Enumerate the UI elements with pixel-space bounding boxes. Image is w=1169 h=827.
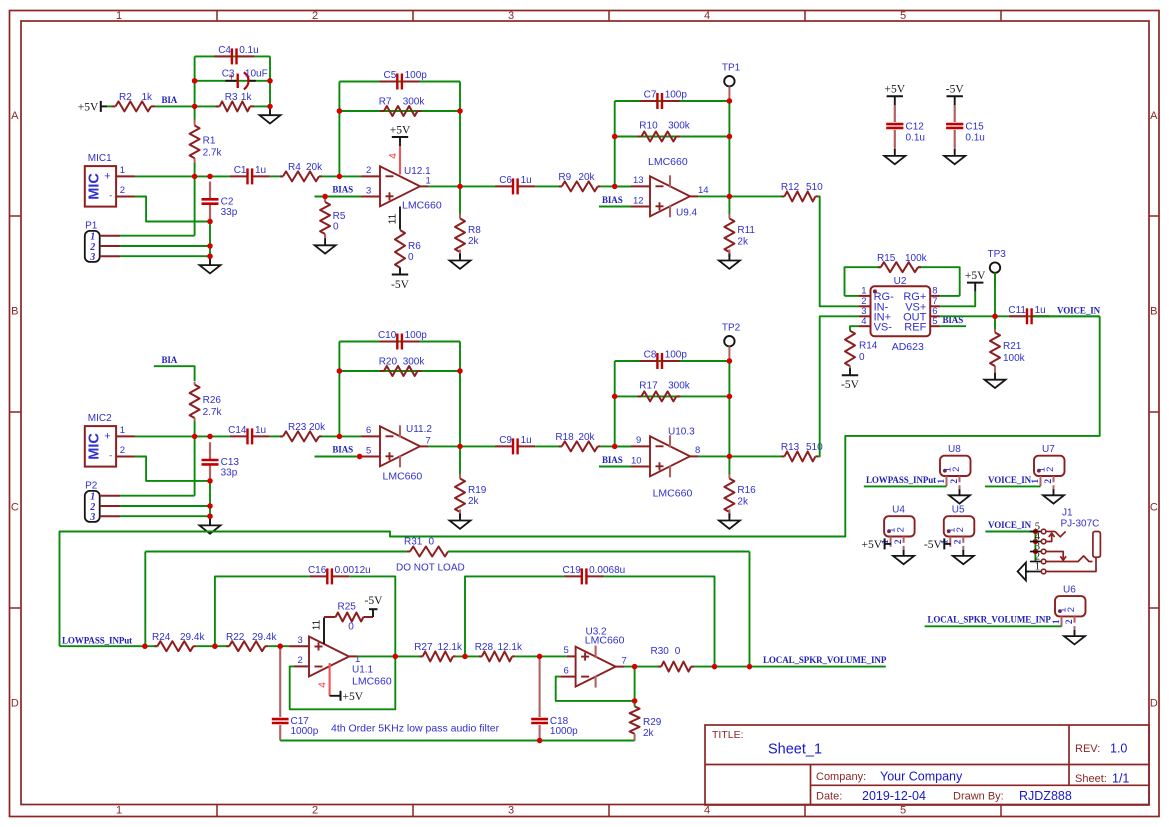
svg-text:R25: R25 bbox=[338, 602, 357, 613]
wire R24 to C16 node bbox=[196, 645, 229, 647]
wire R28 to U3.2 pin5 bbox=[515, 655, 576, 657]
svg-text:U4: U4 bbox=[892, 505, 905, 516]
U2 left pin names bbox=[874, 291, 895, 333]
svg-text:R1: R1 bbox=[203, 136, 216, 147]
ground (C12) bbox=[884, 145, 905, 164]
power flag -5V (R25) bbox=[365, 595, 384, 617]
wire +5V to R2 bbox=[107, 105, 111, 107]
svg-text:2: 2 bbox=[1045, 467, 1056, 472]
net label BIA bbox=[162, 95, 178, 105]
test point TP3 bbox=[988, 249, 1007, 317]
svg-text:1: 1 bbox=[1031, 479, 1041, 484]
svg-text:2k: 2k bbox=[468, 236, 480, 247]
header U5 bbox=[941, 505, 975, 547]
svg-text:C16: C16 bbox=[308, 565, 327, 576]
wire out to R12 bbox=[729, 195, 784, 197]
svg-text:A: A bbox=[1150, 110, 1158, 122]
svg-text:300k: 300k bbox=[668, 381, 691, 392]
wire out to R13 bbox=[729, 455, 784, 457]
wire BIAS stub to pin3 bbox=[315, 196, 381, 198]
svg-text:1k: 1k bbox=[142, 92, 154, 103]
svg-text:1u: 1u bbox=[255, 425, 266, 436]
wire R9 to U9.4 pin13 node bbox=[601, 185, 631, 187]
svg-text:TP2: TP2 bbox=[722, 322, 741, 333]
wire MIC1 pin2 route bbox=[135, 197, 211, 222]
svg-text:R26: R26 bbox=[203, 395, 222, 406]
svg-text:C15: C15 bbox=[965, 121, 984, 132]
capacitor C7 100p bbox=[640, 90, 688, 109]
net label VOICE_IN (J1) bbox=[985, 520, 1035, 531]
wire LOWPASS input row bbox=[60, 645, 158, 647]
svg-text:2k: 2k bbox=[737, 237, 749, 248]
svg-text:A: A bbox=[11, 110, 19, 122]
wire R16 top lead bbox=[728, 456, 730, 474]
net label LOCAL_SPKR_VOLUME_INP (U6) bbox=[925, 615, 1062, 627]
svg-text:4: 4 bbox=[388, 153, 399, 159]
svg-text:0: 0 bbox=[675, 646, 681, 657]
ground (R19) bbox=[450, 510, 471, 529]
svg-text:R10: R10 bbox=[639, 121, 658, 132]
capacitor C10 100p bbox=[378, 330, 427, 349]
power flag -5V (U12.1) bbox=[391, 268, 410, 291]
junction MIC1 pin1 bbox=[192, 174, 213, 179]
test point TP2 bbox=[722, 322, 741, 360]
wire left vertical C7-R10-pin13 bbox=[614, 101, 616, 186]
capacitor C14 1u bbox=[228, 425, 270, 445]
junction J1 pins bbox=[1033, 529, 1038, 554]
svg-text:2k: 2k bbox=[468, 496, 480, 507]
J1 pin numbers bbox=[1035, 521, 1041, 572]
svg-text:+5V: +5V bbox=[885, 84, 906, 96]
svg-text:11: 11 bbox=[388, 213, 399, 224]
svg-text:4: 4 bbox=[318, 682, 329, 688]
resistor R21 100k bbox=[990, 329, 1026, 371]
resistor R30 0 bbox=[651, 646, 695, 672]
wire P2 pin2 bbox=[120, 505, 210, 507]
svg-text:C12: C12 bbox=[906, 121, 925, 132]
svg-text:2.7k: 2.7k bbox=[203, 148, 223, 159]
jack J1 labels bbox=[1061, 508, 1100, 530]
connector P1 bbox=[85, 220, 120, 263]
svg-text:0: 0 bbox=[859, 352, 865, 363]
svg-text:C: C bbox=[11, 502, 19, 514]
power flag +5V (U12.1) bbox=[390, 124, 411, 146]
junction U9.4 columns bbox=[612, 98, 732, 199]
power pin 11 (U1.1) bbox=[312, 618, 325, 645]
pin number 2 (U12.1) bbox=[366, 165, 371, 176]
capacitor C6 1u bbox=[495, 175, 535, 195]
header U7 bbox=[1031, 444, 1065, 486]
microphone MIC2 bbox=[85, 413, 135, 467]
U2 pin lines right bbox=[930, 296, 940, 326]
svg-text:VOICE_IN: VOICE_IN bbox=[988, 520, 1032, 530]
capacitor C16 0.0012u bbox=[308, 565, 371, 584]
svg-text:1: 1 bbox=[1035, 561, 1040, 572]
capacitor C4 0.1u bbox=[214, 45, 258, 64]
pin number 6 (U11.2) bbox=[366, 425, 371, 436]
ground (U8) bbox=[949, 485, 970, 503]
svg-text:Date:: Date: bbox=[816, 791, 842, 803]
svg-text:0.1u: 0.1u bbox=[965, 133, 984, 144]
junction C5/R7 columns bbox=[337, 108, 463, 189]
wire R27 to R28 bbox=[456, 655, 482, 657]
pin number 6 (U3.2) bbox=[564, 665, 569, 676]
resistor R13 510 bbox=[781, 442, 823, 461]
wire U3.2 output bbox=[616, 666, 662, 668]
svg-text:+5V: +5V bbox=[862, 539, 883, 551]
svg-text:-5V: -5V bbox=[946, 84, 965, 96]
wire C16 loop bbox=[215, 576, 395, 652]
svg-text:300k: 300k bbox=[403, 357, 426, 368]
wire out to C6 bbox=[460, 185, 496, 187]
resistor R2 1k bbox=[112, 92, 156, 111]
svg-text:2: 2 bbox=[894, 539, 904, 544]
wire BIA stub stage2 bbox=[154, 366, 195, 381]
pin number 9 (U10.3) bbox=[636, 435, 641, 446]
resistor R28 12.1k bbox=[475, 642, 523, 661]
wire C9 to R18 bbox=[535, 445, 562, 447]
wire R10 row bbox=[615, 136, 730, 138]
capacitor C13 33p bbox=[202, 442, 240, 482]
svg-text:LMC660: LMC660 bbox=[402, 200, 442, 212]
svg-text:LMC660: LMC660 bbox=[585, 635, 625, 647]
svg-text:BIA: BIA bbox=[162, 95, 178, 105]
wire right vertical C5-R7-out bbox=[459, 82, 461, 187]
svg-text:+: + bbox=[104, 171, 110, 183]
svg-text:D: D bbox=[1150, 698, 1158, 710]
svg-text:2: 2 bbox=[951, 467, 962, 472]
svg-text:LOWPASS_INPut: LOWPASS_INPut bbox=[62, 635, 132, 645]
svg-text:2: 2 bbox=[1065, 619, 1075, 624]
svg-text:C9: C9 bbox=[499, 435, 512, 446]
svg-text:-5V: -5V bbox=[841, 379, 860, 391]
ground (C15) bbox=[944, 145, 965, 164]
svg-text:C14: C14 bbox=[228, 425, 247, 436]
op-amp U3.2 bbox=[576, 626, 627, 687]
microphone MIC1 bbox=[85, 153, 135, 207]
svg-text:20k: 20k bbox=[578, 172, 595, 183]
J1 ring contact bbox=[1046, 556, 1093, 562]
wire C6 to R9 bbox=[535, 185, 562, 187]
svg-text:4th Order 5KHz low pass audio: 4th Order 5KHz low pass audio filter bbox=[331, 723, 500, 735]
svg-text:C11: C11 bbox=[1008, 305, 1026, 316]
wire C14 to R23 bbox=[270, 435, 283, 437]
svg-text:LMC660: LMC660 bbox=[383, 471, 423, 483]
resistor R10 300k bbox=[637, 121, 690, 142]
ground (R5) bbox=[315, 234, 336, 253]
svg-text:R13: R13 bbox=[781, 442, 800, 453]
capacitor C12 0.1u bbox=[886, 105, 925, 147]
resistor R18 20k bbox=[555, 432, 600, 451]
svg-text:MIC1: MIC1 bbox=[88, 153, 112, 164]
svg-text:2: 2 bbox=[120, 185, 125, 196]
svg-text:C17: C17 bbox=[291, 716, 310, 727]
svg-text:VOICE_IN: VOICE_IN bbox=[988, 475, 1032, 485]
svg-text:2: 2 bbox=[955, 527, 966, 532]
wire U3.2 pin6 feedback bbox=[556, 667, 635, 701]
pin number 10 (U10.3) bbox=[631, 455, 642, 466]
svg-text:4: 4 bbox=[861, 316, 866, 327]
svg-text:9: 9 bbox=[636, 435, 641, 446]
wire C10 top row bbox=[339, 341, 460, 343]
svg-text:AD623: AD623 bbox=[892, 341, 924, 353]
svg-text:LOWPASS_INPut: LOWPASS_INPut bbox=[866, 475, 936, 485]
svg-text:7: 7 bbox=[622, 656, 627, 667]
wire BIAS stub to pin12 bbox=[599, 206, 650, 208]
wire R19 top lead bbox=[459, 446, 461, 474]
wire C13 down to P2 rows bbox=[209, 481, 211, 516]
svg-text:33p: 33p bbox=[221, 468, 238, 479]
svg-text:R19: R19 bbox=[468, 485, 487, 496]
ground (R16) bbox=[719, 510, 740, 529]
svg-text:0.1u: 0.1u bbox=[239, 45, 258, 56]
svg-text:7: 7 bbox=[426, 435, 431, 446]
junction U1.1 out bbox=[393, 654, 398, 659]
junction P2 pins bbox=[207, 503, 212, 519]
junction C16 left bbox=[212, 644, 217, 649]
resistor R23 20k bbox=[280, 422, 326, 441]
U2 right pin numbers bbox=[932, 286, 937, 327]
junction R29 top bbox=[632, 698, 637, 703]
resistor R12 510 bbox=[781, 182, 823, 201]
label LMC660 (U9.4) bbox=[648, 156, 688, 168]
wire R31 row bbox=[145, 552, 749, 667]
wire C19 loop bbox=[465, 576, 715, 666]
wire R15 to pin1 bbox=[845, 295, 860, 297]
svg-text:2: 2 bbox=[120, 445, 125, 456]
U2 pin lines left bbox=[859, 296, 871, 326]
svg-text:1: 1 bbox=[120, 425, 125, 436]
svg-text:5: 5 bbox=[564, 645, 569, 656]
svg-text:6: 6 bbox=[366, 425, 371, 436]
capacitor C2 33p bbox=[202, 182, 238, 222]
wire right vertical C10-R20-out bbox=[459, 342, 461, 447]
svg-text:1000p: 1000p bbox=[291, 726, 319, 737]
svg-text:Sheet_1: Sheet_1 bbox=[768, 742, 822, 758]
J1 ring switch arrow bbox=[1046, 552, 1066, 561]
power flag -5V (C15) bbox=[946, 84, 965, 106]
J1 tip switch arrow bbox=[1046, 533, 1055, 541]
svg-text:P2: P2 bbox=[85, 480, 98, 491]
svg-text:R28: R28 bbox=[475, 642, 494, 653]
pin number 3 (U1.1) bbox=[298, 635, 303, 646]
svg-text:R15: R15 bbox=[877, 253, 896, 264]
wire left vertical C8-R17-pin9 bbox=[614, 361, 616, 446]
wire U1.1 output bbox=[349, 655, 423, 657]
wire MIC2 pin2 route bbox=[135, 457, 211, 481]
svg-text:Drawn By:: Drawn By: bbox=[953, 791, 1004, 803]
svg-text:2019-12-04: 2019-12-04 bbox=[862, 789, 926, 803]
capacitor C17 1000p bbox=[272, 646, 319, 740]
junction P1 pins bbox=[207, 243, 212, 259]
svg-text:C4: C4 bbox=[218, 45, 231, 56]
header U4 bbox=[881, 505, 915, 547]
wire R4 to U12.1 pin2 node bbox=[322, 175, 339, 177]
svg-text:510: 510 bbox=[806, 182, 823, 193]
svg-text:1.0: 1.0 bbox=[1110, 742, 1127, 756]
junction C19 right bbox=[712, 664, 717, 669]
svg-text:J1: J1 bbox=[1062, 508, 1073, 519]
svg-text:BIAS: BIAS bbox=[602, 195, 623, 205]
svg-text:2: 2 bbox=[366, 165, 371, 176]
wire C5 top row bbox=[339, 81, 460, 83]
svg-text:300k: 300k bbox=[403, 97, 426, 108]
power flag +5V (U1.1) bbox=[330, 691, 364, 703]
svg-text:2k: 2k bbox=[737, 497, 749, 508]
svg-text:R9: R9 bbox=[558, 172, 571, 183]
wire pin13 to U9.4 bbox=[615, 185, 650, 187]
pin number 12 (U9.4) bbox=[633, 195, 644, 206]
svg-text:100p: 100p bbox=[665, 90, 688, 101]
wire MIC1 pin1 row bbox=[135, 175, 230, 177]
svg-text:C10: C10 bbox=[378, 330, 397, 341]
ground (P2/C13) bbox=[200, 514, 221, 533]
wire left vertical C4-C3-BIA bbox=[194, 56, 196, 106]
svg-text:TITLE:: TITLE: bbox=[712, 729, 744, 741]
label 4th order filter bbox=[331, 723, 500, 735]
resistor R3 1k bbox=[195, 92, 270, 111]
pin number 5 (U3.2) bbox=[564, 645, 569, 656]
svg-text:R4: R4 bbox=[288, 162, 301, 173]
header U6 bbox=[1052, 585, 1086, 627]
net label BIAS (U10.3) bbox=[602, 455, 623, 465]
svg-text:12.1k: 12.1k bbox=[498, 642, 523, 653]
net label LOWPASS_INPut (U8) bbox=[864, 475, 947, 486]
wire BIA down to R1 bbox=[194, 106, 196, 122]
U2 right pin names bbox=[903, 291, 927, 333]
U2 left pin numbers bbox=[861, 286, 866, 327]
junction R31 right bbox=[747, 664, 752, 669]
wire C8 row bbox=[615, 360, 730, 362]
junction C13 bbox=[207, 478, 212, 483]
svg-text:LMC660: LMC660 bbox=[352, 676, 392, 688]
capacitor C19 0.0068u bbox=[562, 565, 625, 584]
J1 pin lines bbox=[1030, 532, 1042, 572]
svg-text:R2: R2 bbox=[119, 92, 132, 103]
junction U3.2 out bbox=[632, 664, 637, 669]
ground (J1 pin1) bbox=[1018, 563, 1030, 581]
ground (R11) bbox=[719, 250, 740, 269]
wire R18 to U10.3 pin9 node bbox=[601, 445, 631, 447]
wire R17 row bbox=[615, 395, 730, 397]
svg-text:R22: R22 bbox=[226, 632, 245, 643]
title block bbox=[705, 725, 1149, 805]
wire MIC common vertical bbox=[194, 176, 196, 235]
J1 pin circles bbox=[1041, 529, 1046, 574]
svg-text:6: 6 bbox=[564, 665, 569, 676]
resistor R14 0 bbox=[845, 326, 878, 371]
op-amp U11.2 bbox=[380, 424, 432, 483]
IC U2 AD623 body bbox=[871, 276, 931, 353]
junction R5 bbox=[322, 194, 327, 199]
svg-text:R3: R3 bbox=[225, 92, 238, 103]
wire C7 row bbox=[615, 100, 730, 102]
svg-text:TP3: TP3 bbox=[988, 249, 1007, 260]
svg-text:100p: 100p bbox=[405, 70, 428, 81]
svg-text:100k: 100k bbox=[905, 253, 928, 264]
wire U2 OUT row bbox=[940, 315, 1099, 317]
svg-text:R5: R5 bbox=[333, 211, 346, 222]
wire R7 row bbox=[339, 110, 460, 112]
svg-text:3: 3 bbox=[366, 185, 371, 196]
svg-text:8: 8 bbox=[695, 445, 700, 456]
wire left vertical C5-R7-pin2 bbox=[338, 82, 340, 177]
op-amp U9.4 bbox=[650, 175, 709, 218]
svg-text:R30: R30 bbox=[651, 646, 670, 657]
svg-text:+5V: +5V bbox=[343, 691, 364, 703]
resistor R27 12.1k bbox=[414, 642, 463, 661]
resistor R24 29.4k bbox=[152, 632, 205, 651]
J1 tip contact bbox=[1046, 532, 1066, 537]
wire out to C9 bbox=[460, 445, 496, 447]
resistor R29 2k bbox=[630, 701, 662, 741]
svg-text:MIC: MIC bbox=[87, 433, 103, 460]
svg-text:U8: U8 bbox=[948, 444, 961, 455]
junction R31 left bbox=[142, 644, 147, 649]
connector P2 bbox=[85, 480, 120, 523]
svg-text:U5: U5 bbox=[952, 505, 965, 516]
wire R8 top lead bbox=[459, 186, 461, 214]
op-amp U10.3 bbox=[650, 426, 700, 499]
wire R26 to MIC2 node bbox=[194, 421, 196, 436]
wire VOICE_IN routing bbox=[60, 316, 1100, 646]
wire R30 output row bbox=[694, 666, 886, 668]
ground (R3/C3/C4) bbox=[260, 104, 281, 123]
capacitor C15 0.1u bbox=[946, 105, 985, 147]
wire U1.1 pin2 feedback bbox=[290, 652, 396, 709]
wire right vertical TP1-C7-R10-out bbox=[728, 101, 730, 196]
wire MIC2 pin1 row bbox=[135, 435, 230, 437]
svg-text:10uF: 10uF bbox=[245, 68, 268, 79]
svg-text:5: 5 bbox=[932, 316, 937, 327]
wire R21 top lead bbox=[994, 316, 996, 329]
svg-text:3: 3 bbox=[298, 635, 303, 646]
svg-text:REV:: REV: bbox=[1075, 743, 1100, 755]
svg-text:1k: 1k bbox=[241, 92, 253, 103]
wire C1 to R4 bbox=[270, 175, 283, 177]
net label BIAS (U12.1) bbox=[332, 185, 353, 195]
svg-text:R8: R8 bbox=[468, 225, 481, 236]
resistor R16 2k bbox=[724, 474, 756, 518]
svg-text:1: 1 bbox=[861, 286, 866, 297]
svg-text:U10.3: U10.3 bbox=[668, 426, 695, 437]
svg-text:R6: R6 bbox=[408, 241, 421, 252]
resistor R17 300k bbox=[637, 381, 690, 402]
capacitor C8 100p bbox=[640, 350, 688, 369]
resistor R4 20k bbox=[280, 162, 323, 181]
svg-text:LOCAL_SPKR_VOLUME_INP: LOCAL_SPKR_VOLUME_INP bbox=[928, 615, 1052, 625]
svg-text:13: 13 bbox=[633, 175, 644, 186]
wire right vertical TP2-C8-R17-out bbox=[728, 361, 730, 456]
power pin 4 (U12.1) bbox=[388, 146, 400, 175]
svg-text:2: 2 bbox=[895, 527, 906, 532]
svg-text:14: 14 bbox=[698, 185, 709, 196]
wire R22 to U1.1 pin3 bbox=[268, 645, 309, 647]
svg-text:+5V: +5V bbox=[390, 124, 411, 136]
svg-text:Sheet:: Sheet: bbox=[1075, 773, 1107, 785]
wire R23 to U11.2 pin6 node bbox=[322, 435, 339, 437]
svg-text:3: 3 bbox=[508, 10, 514, 22]
capacitor C11 1u bbox=[1008, 305, 1049, 324]
ground (R21) bbox=[985, 369, 1006, 388]
svg-text:1: 1 bbox=[1052, 619, 1062, 624]
svg-text:0: 0 bbox=[348, 622, 354, 633]
svg-text:R12: R12 bbox=[781, 182, 800, 193]
resistor R25 0 bbox=[324, 602, 373, 633]
svg-text:20k: 20k bbox=[309, 422, 326, 433]
svg-text:1: 1 bbox=[116, 10, 122, 22]
svg-text:5: 5 bbox=[900, 10, 906, 22]
